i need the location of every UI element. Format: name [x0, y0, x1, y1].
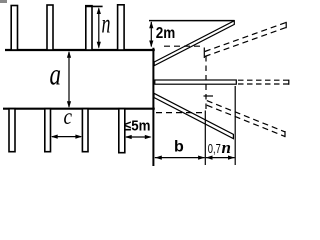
dimension c arrow — [52, 136, 81, 138]
dimension b line — [155, 157, 205, 159]
road bottom line — [3, 108, 155, 110]
top dashed diagonal upper — [205, 23, 286, 52]
extension line right — [234, 86, 236, 165]
top beam raised — [154, 21, 234, 66]
svg-text:n: n — [222, 138, 231, 157]
post Q1 — [9, 109, 15, 152]
svg-text:2m: 2m — [156, 25, 176, 42]
post Q4 — [119, 109, 125, 153]
svg-text:a: a — [50, 56, 62, 91]
post P3 — [86, 6, 92, 50]
post Q2 — [45, 109, 51, 152]
bottom dashed diagonal start dash — [204, 95, 214, 97]
2m top reference line — [149, 20, 234, 22]
top dashed diagonal lower — [205, 28, 286, 57]
svg-text:c: c — [64, 104, 73, 129]
bottom dashed diagonal lower — [207, 105, 285, 136]
post P3 top cap line — [86, 5, 103, 7]
road top line — [5, 49, 155, 51]
wall — [152, 48, 154, 166]
dimension 0,7n line — [206, 157, 235, 159]
dashed vertical — [205, 56, 207, 111]
post P2 — [47, 5, 53, 50]
bottom dashed diagonal end cap — [284, 131, 286, 137]
dashed horizontal bottom — [156, 112, 205, 114]
bottom beam lowered — [154, 93, 233, 138]
dimension n arrow — [98, 9, 100, 48]
top dashed diagonal end cap — [285, 22, 287, 28]
middle beam horizontal — [155, 80, 237, 84]
dimension 2m arrow — [150, 22, 152, 47]
svg-text:b: b — [174, 139, 184, 156]
dimension <=5m arrow — [126, 136, 151, 138]
svg-text:≤5m: ≤5m — [124, 119, 151, 135]
dimension a arrow — [68, 52, 70, 107]
svg-text:0,7: 0,7 — [208, 141, 221, 156]
dashed horizontal top — [164, 45, 204, 47]
top dashed diagonal start tick — [203, 48, 205, 59]
extension line middle — [204, 111, 206, 166]
middle beam dashed continuation — [238, 79, 289, 81]
post P1 — [11, 6, 17, 51]
bottom dashed diagonal upper — [207, 101, 285, 132]
post Q3 — [82, 109, 88, 152]
post P4 — [118, 5, 125, 50]
svg-text:n: n — [102, 9, 111, 39]
scan smudge top-left — [0, 0, 7, 3]
